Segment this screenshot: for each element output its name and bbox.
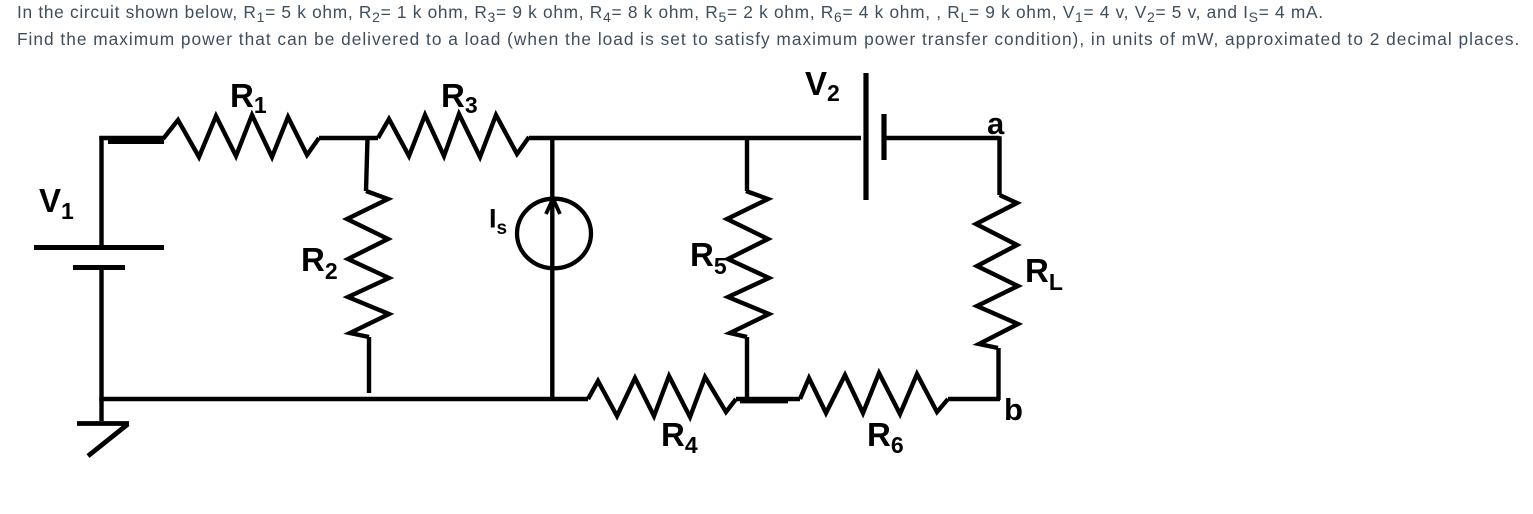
wire top middle (R3 to V2)	[529, 136, 861, 140]
resistor R5	[727, 191, 769, 337]
current source Is circle	[517, 199, 591, 269]
resistor R5 bottom lead	[745, 337, 749, 399]
svg-text:R1: R1	[230, 77, 267, 118]
wire bottom left	[99, 397, 588, 401]
resistor R2	[347, 191, 389, 337]
resistor R3	[378, 114, 529, 157]
svg-text:V1: V1	[39, 182, 74, 224]
problem text line 2	[17, 29, 1520, 50]
wire left vertical (V1 top to top-left corner)	[99, 136, 103, 246]
svg-text:R4: R4	[661, 416, 698, 458]
resistor R2 bottom lead	[367, 337, 371, 393]
svg-text:a: a	[987, 106, 1005, 141]
svg-text:R3: R3	[441, 77, 478, 118]
wire between R1 and R3	[319, 136, 378, 140]
resistor R5 top lead	[745, 138, 749, 191]
wire node a down	[997, 136, 1001, 195]
svg-text:R2: R2	[301, 241, 338, 284]
svg-text:R5: R5	[690, 236, 727, 279]
problem text line 1	[17, 2, 1324, 23]
resistor R6	[800, 373, 948, 414]
ground	[77, 424, 129, 457]
wire bottom middle (R4 to R6)	[736, 399, 800, 401]
resistor R1	[163, 115, 319, 157]
battery V2	[866, 73, 884, 200]
resistor R2 top lead	[366, 138, 368, 191]
current source Is arrowhead	[546, 199, 560, 215]
resistor RL	[976, 195, 1018, 348]
svg-text:V2: V2	[805, 65, 840, 106]
svg-text:b: b	[1004, 392, 1023, 427]
svg-text:Is: Is	[489, 204, 507, 240]
svg-text:RL: RL	[1025, 252, 1063, 295]
wire top-left lead	[99, 138, 164, 142]
wire V2 to node a	[884, 136, 1000, 140]
svg-text:R6: R6	[867, 416, 904, 458]
resistor R4	[588, 376, 736, 417]
battery V1	[34, 248, 164, 268]
wire bottom right to node b	[948, 397, 1000, 401]
wire RL bottom to node b	[996, 348, 1000, 400]
wire below V1 to ground	[99, 267, 103, 421]
current source Is wire and arrow shaft	[550, 138, 554, 399]
